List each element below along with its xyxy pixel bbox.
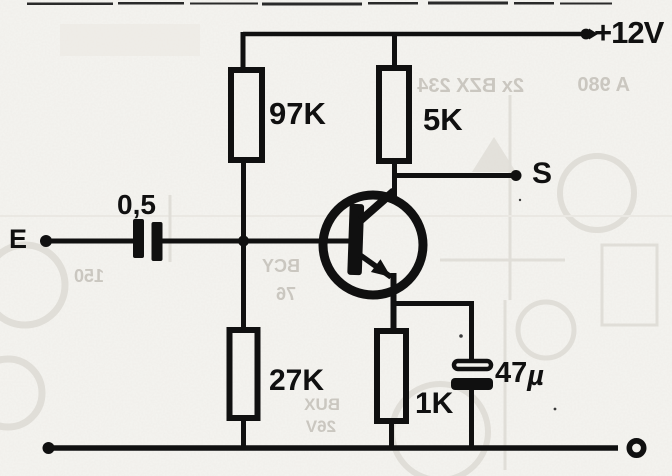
wire: emitter branch to C2: [394, 304, 472, 361]
wire: top rail to R1: [241, 32, 246, 67]
svg-text:BUX: BUX: [303, 395, 340, 414]
resistor 27K: [230, 330, 258, 418]
resistor 1K: [377, 331, 406, 421]
wire: capacitor C1 to base: [162, 239, 350, 244]
wire: R4 bottom to ground rail: [389, 421, 394, 450]
wire: emitter down to R4: [391, 273, 397, 331]
terminal E dot: [40, 235, 52, 247]
wire: +12V top rail: [243, 32, 584, 37]
capacitor C1 0,5 plates: [133, 219, 163, 261]
wire: collector node to S: [395, 173, 514, 178]
svg-text:2x BZX 234: 2x BZX 234: [416, 75, 524, 97]
svg-text:47µ: 47µ: [495, 357, 544, 392]
node: rail left end dot: [43, 442, 55, 454]
wire: R3 bottom to ground rail: [241, 418, 246, 450]
wire: ground rail: [48, 445, 618, 451]
capacitor C2 bottom plate: [451, 378, 493, 390]
wire: E to capacitor C1: [50, 239, 134, 244]
terminal S dot: [511, 170, 522, 181]
svg-text:150: 150: [74, 266, 104, 286]
wire: R1 bottom to base node to R3: [241, 160, 246, 330]
transistor Q1 base bar: [347, 204, 364, 275]
svg-text:27K: 27K: [269, 364, 324, 397]
svg-text:76: 76: [276, 284, 296, 304]
svg-text:A 980: A 980: [577, 74, 630, 96]
terminal O: [629, 441, 643, 455]
+12V arrow terminal: [581, 29, 592, 40]
svg-text:26V: 26V: [305, 417, 336, 436]
resistor 97K: [231, 70, 262, 160]
capacitor C2 top plate: [454, 361, 491, 369]
wire: C2 to ground rail: [469, 390, 474, 450]
transistor Q1 emitter arrow: [371, 259, 391, 277]
transistor Q1 emitter stroke: [360, 255, 391, 277]
svg-text:E: E: [9, 224, 27, 254]
resistor 5K: [379, 68, 409, 161]
svg-text:BCY: BCY: [262, 256, 300, 276]
scan specks: [377, 86, 556, 410]
wire: top rail to R2: [392, 32, 397, 65]
svg-text:S: S: [532, 157, 552, 190]
svg-text:1K: 1K: [415, 387, 454, 420]
svg-text:5K: 5K: [423, 102, 463, 137]
transistor Q1 collector stroke: [361, 191, 394, 220]
scan border artifact (top edge): [27, 2, 612, 6]
wire: R2 bottom to collector: [392, 161, 397, 197]
svg-text:0,5: 0,5: [117, 189, 156, 220]
node: base junction: [238, 236, 249, 247]
transistor Q1 circle: [323, 195, 423, 295]
svg-text:97K: 97K: [269, 96, 326, 131]
svg-text:+12V: +12V: [594, 15, 665, 50]
